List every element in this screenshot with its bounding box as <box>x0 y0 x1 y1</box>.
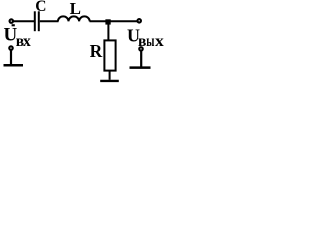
svg-text:L: L <box>70 0 81 18</box>
svg-text:в: в <box>138 33 146 50</box>
svg-text:R: R <box>90 41 103 61</box>
svg-text:х: х <box>155 33 164 50</box>
svg-text:ы: ы <box>146 33 154 50</box>
svg-text:х: х <box>23 33 31 50</box>
svg-text:C: C <box>35 0 46 15</box>
